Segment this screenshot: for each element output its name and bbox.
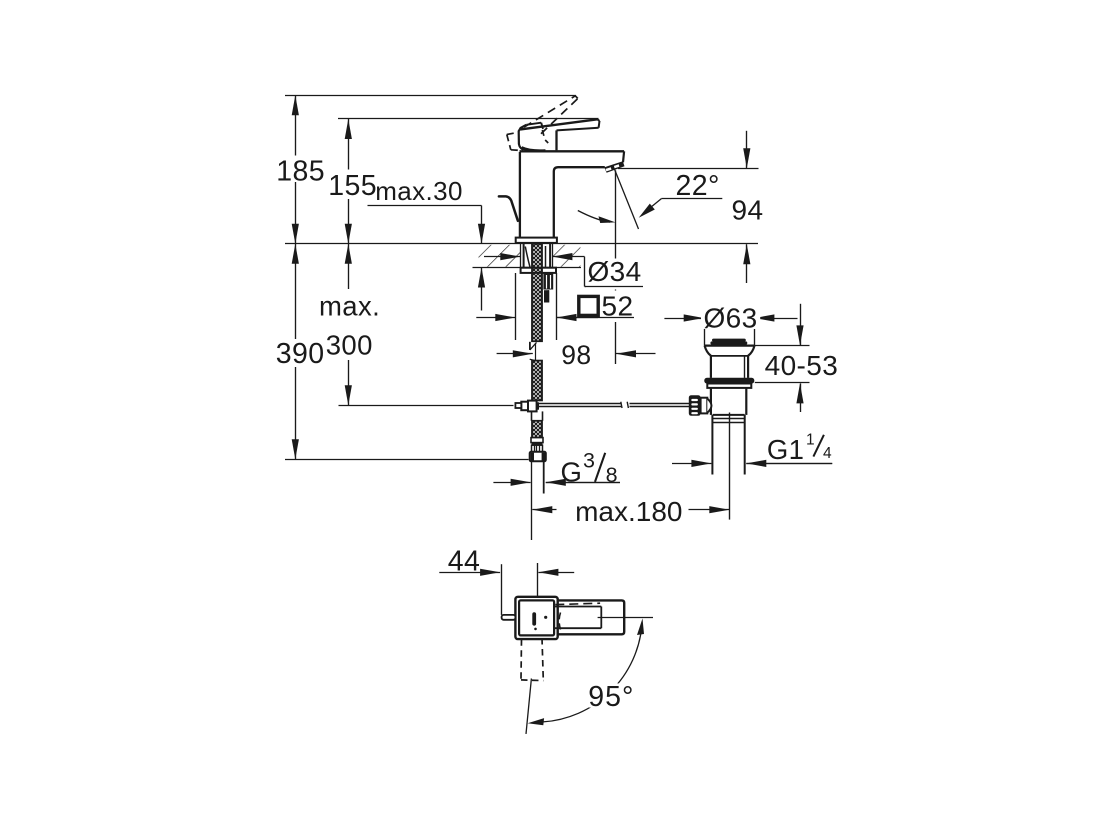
- svg-text:44: 44: [448, 546, 481, 578]
- svg-text:185: 185: [276, 156, 325, 188]
- svg-text:Ø34: Ø34: [588, 256, 642, 287]
- svg-text:390: 390: [276, 338, 325, 370]
- svg-text:max.: max.: [319, 291, 380, 322]
- svg-text:G1: G1: [767, 434, 805, 465]
- svg-text:22°: 22°: [676, 170, 720, 202]
- svg-text:98: 98: [561, 340, 591, 370]
- svg-text:3: 3: [583, 449, 595, 473]
- svg-text:94: 94: [732, 194, 764, 225]
- svg-text:8: 8: [606, 463, 618, 487]
- svg-text:max.180: max.180: [575, 496, 682, 527]
- svg-text:4: 4: [823, 445, 832, 462]
- svg-text:1: 1: [806, 431, 815, 448]
- svg-text:155: 155: [328, 170, 377, 202]
- svg-text:max.30: max.30: [375, 176, 463, 206]
- svg-text:95°: 95°: [588, 681, 634, 713]
- svg-text:Ø63: Ø63: [704, 303, 758, 334]
- svg-text:40-53: 40-53: [765, 350, 839, 381]
- svg-text:300: 300: [326, 330, 373, 361]
